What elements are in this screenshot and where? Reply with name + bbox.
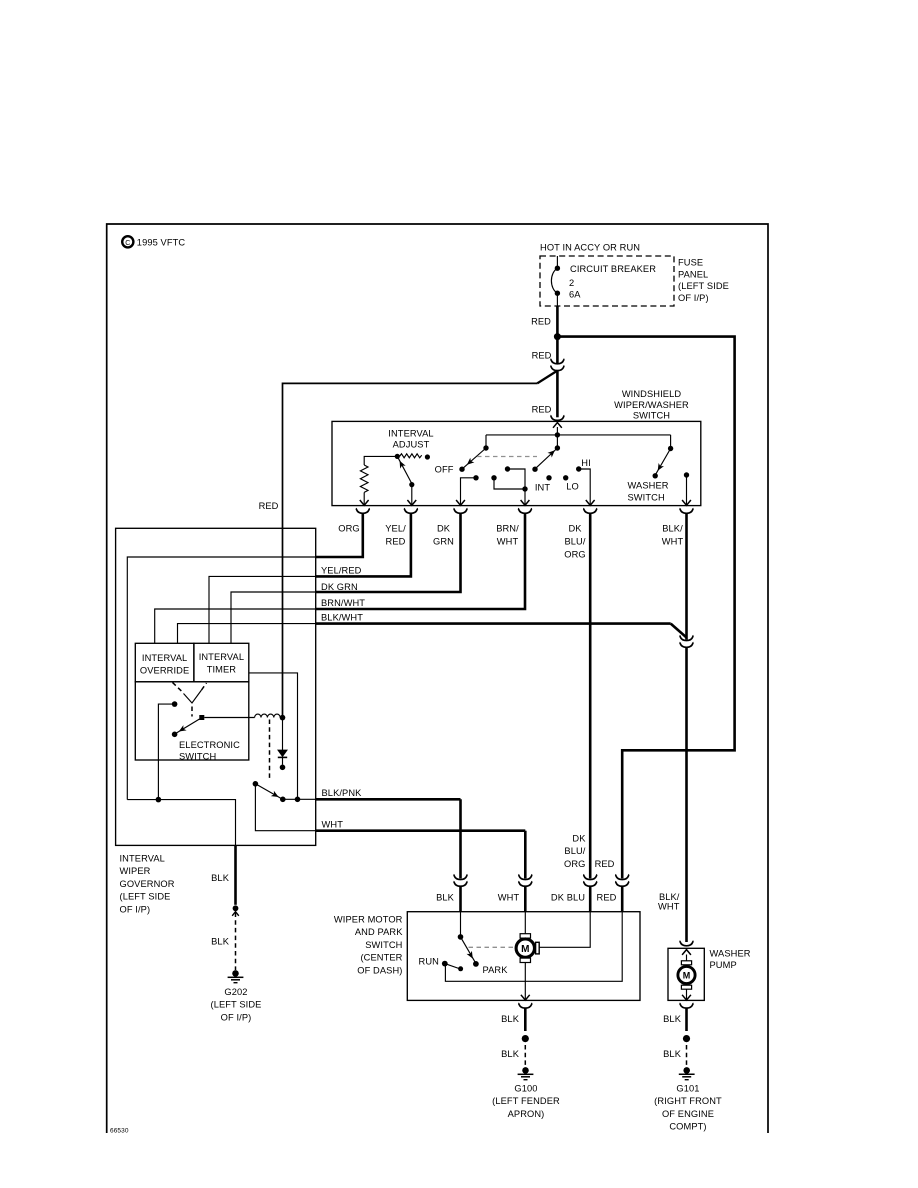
svg-text:BLK/: BLK/ — [659, 892, 680, 902]
svg-text:FUSE: FUSE — [678, 258, 703, 268]
svg-text:6A: 6A — [569, 290, 581, 300]
page border frame — [107, 224, 768, 1133]
svg-text:COMPT): COMPT) — [669, 1122, 706, 1132]
svg-text:ORG: ORG — [564, 549, 585, 559]
labels below motor connectors — [436, 893, 617, 903]
relay switch lower — [253, 781, 316, 802]
connector under motor box — [518, 1003, 532, 1008]
washer pump connector at box — [680, 941, 694, 946]
label WINDSHIELD WIPER/WASHER SWITCH — [614, 389, 689, 421]
svg-text:ADJUST: ADJUST — [393, 440, 430, 450]
wire branch diagonal to left RED run — [537, 371, 557, 383]
svg-text:WASHER: WASHER — [710, 949, 751, 959]
timer control dashed V — [173, 683, 207, 717]
wire BLK to G101 — [663, 1008, 690, 1066]
contact LO — [563, 475, 568, 480]
wire BLK/WHT from switch down — [685, 513, 688, 639]
wire RED down from junction — [556, 337, 559, 364]
svg-text:(LEFT SIDE: (LEFT SIDE — [678, 281, 729, 291]
potentiometer interval adjust — [395, 454, 430, 460]
contact washer / BLK/WHT column — [682, 472, 691, 505]
svg-text:SWITCH: SWITCH — [179, 752, 216, 762]
svg-text:(RIGHT FRONT: (RIGHT FRONT — [654, 1096, 722, 1106]
connector under washer pump — [680, 1003, 694, 1008]
svg-text:INTERVAL: INTERVAL — [142, 653, 187, 663]
svg-text:OF ENGINE: OF ENGINE — [662, 1109, 714, 1119]
switch arm washer — [653, 449, 671, 479]
svg-text:RED: RED — [597, 893, 617, 903]
svg-text:RUN: RUN — [419, 957, 439, 967]
wire motor to ground exit — [521, 963, 530, 1001]
pot wiper arm — [397, 458, 416, 505]
svg-text:WHT: WHT — [662, 536, 684, 546]
svg-text:AND PARK: AND PARK — [355, 927, 403, 937]
svg-text:HI: HI — [581, 458, 591, 468]
interval override box — [135, 643, 194, 682]
svg-text:CIRCUIT BREAKER: CIRCUIT BREAKER — [570, 264, 656, 274]
svg-text:BLK: BLK — [663, 1014, 682, 1024]
svg-text:RED: RED — [259, 501, 279, 511]
svg-text:WIPER MOTOR: WIPER MOTOR — [334, 915, 403, 925]
mechanical link dashed OFF-LO — [477, 456, 537, 458]
svg-text:OVERRIDE: OVERRIDE — [140, 666, 189, 676]
svg-text:(LEFT SIDE: (LEFT SIDE — [211, 1000, 262, 1010]
svg-text:HOT IN ACCY OR RUN: HOT IN ACCY OR RUN — [540, 243, 640, 253]
svg-text:GRN: GRN — [433, 536, 454, 546]
svg-text:BLK: BLK — [501, 1049, 520, 1059]
svg-text:BLK: BLK — [436, 893, 455, 903]
wiper switch arm pivot — [556, 435, 558, 448]
diode — [278, 718, 287, 771]
svg-text:1995 VFTC: 1995 VFTC — [137, 238, 186, 248]
contact INT — [546, 475, 551, 480]
contact OFF lower / DK GRN column — [456, 475, 479, 505]
svg-text:BLK: BLK — [211, 873, 230, 883]
washer pump box — [668, 948, 704, 1000]
wire pot to resistor top — [364, 456, 397, 465]
wire RED from breaker to junction — [556, 306, 559, 337]
interval wiper governor box — [116, 528, 316, 845]
washer pump motor M — [678, 955, 695, 1001]
connector at switch box edge — [550, 416, 564, 421]
wire DK BLU inside box to motor — [539, 912, 590, 948]
svg-text:GOVERNOR: GOVERNOR — [120, 879, 175, 889]
contacts BRN/WHT network — [491, 466, 529, 505]
wiper motor M — [516, 912, 539, 963]
park switch pivot — [458, 912, 464, 940]
svg-text:ORG: ORG — [564, 859, 585, 869]
connector in-line on RED — [550, 359, 564, 371]
washer switch pivot — [668, 435, 673, 451]
wire DK BLU/ORG to motor — [589, 513, 592, 878]
wire DK GRN — [316, 513, 461, 592]
wire RED to motor connector — [615, 875, 629, 887]
wire RED to right side — [557, 337, 734, 879]
wire WHT from pivot — [255, 784, 315, 831]
svg-text:INTERVAL: INTERVAL — [388, 429, 433, 439]
wire internal bus — [486, 434, 671, 436]
svg-text:OFF: OFF — [435, 465, 454, 475]
wire BLK to G100 — [501, 1008, 529, 1066]
circuit breaker 2 6A — [551, 256, 656, 306]
svg-text:BLK/WHT: BLK/WHT — [321, 613, 363, 623]
svg-text:DK GRN: DK GRN — [321, 582, 358, 592]
electronic switch pivot — [199, 715, 204, 720]
svg-text:BRN/: BRN/ — [496, 524, 519, 534]
svg-text:SWITCH: SWITCH — [633, 411, 670, 421]
wire BLK to motor — [459, 799, 462, 878]
svg-text:G100: G100 — [514, 1084, 537, 1094]
svg-text:WIPER/WASHER: WIPER/WASHER — [614, 400, 689, 410]
svg-text:TIMER: TIMER — [207, 665, 237, 675]
svg-text:YEL/: YEL/ — [385, 524, 406, 534]
svg-text:RED: RED — [532, 405, 552, 415]
switch arm park — [461, 937, 479, 967]
wire BLK/WHT to washer pump — [685, 647, 688, 943]
svg-text:SWITCH: SWITCH — [365, 940, 402, 950]
svg-text:ELECTRONIC: ELECTRONIC — [179, 740, 240, 750]
svg-text:WHT: WHT — [497, 536, 519, 546]
connector in-line BLK/WHT — [680, 636, 694, 648]
svg-text:PANEL: PANEL — [678, 269, 708, 279]
svg-text:(CENTER: (CENTER — [360, 953, 402, 963]
label WIPER MOTOR AND PARK SWITCH — [334, 915, 403, 976]
wire from timer box to relay contact — [249, 673, 298, 799]
svg-text:G202: G202 — [224, 987, 247, 997]
contact HI / DK BLU/ORG column — [576, 466, 595, 505]
svg-text:RED: RED — [386, 536, 406, 546]
svg-text:BRN/WHT: BRN/WHT — [321, 598, 365, 608]
wire bus stub to OFF pivot — [485, 435, 487, 448]
contact RUN — [419, 957, 464, 972]
wire ORG — [316, 513, 363, 557]
copyright mark 1995 VFTC — [122, 236, 185, 247]
svg-text:DK: DK — [437, 524, 451, 534]
node bus junction — [555, 432, 560, 437]
wire YEL/RED — [316, 513, 411, 576]
label INTERVAL WIPER GOVERNOR — [120, 854, 175, 915]
ground G101 — [679, 1067, 695, 1080]
svg-text:PUMP: PUMP — [710, 960, 737, 970]
svg-text:INT: INT — [535, 483, 550, 493]
svg-text:OF DASH): OF DASH) — [357, 965, 402, 975]
labels above motor connectors — [564, 834, 615, 869]
relay mechanical dashed link — [269, 720, 271, 781]
svg-text:WIPER: WIPER — [120, 866, 151, 876]
interval timer box — [194, 643, 249, 682]
ground G202 — [228, 970, 244, 983]
node junction RED feed — [554, 333, 561, 340]
switch arm electronic — [172, 719, 200, 737]
wire BLK/WHT horizontal — [316, 622, 671, 625]
svg-text:OF I/P): OF I/P) — [678, 293, 709, 303]
electronic switch box — [135, 682, 249, 760]
svg-text:BLK: BLK — [501, 1014, 520, 1024]
label FUSE PANEL (LEFT SIDE OF I/P) — [678, 258, 729, 303]
svg-text:INTERVAL: INTERVAL — [120, 854, 165, 864]
wire RED below connector — [556, 370, 559, 417]
svg-text:WHT: WHT — [498, 893, 520, 903]
svg-text:RED: RED — [532, 351, 552, 361]
svg-text:INTERVAL: INTERVAL — [199, 652, 244, 662]
contact electronic switch upper — [158, 701, 177, 799]
svg-text:66530: 66530 — [110, 1128, 129, 1135]
svg-text:WASHER: WASHER — [628, 481, 669, 491]
svg-text:G101: G101 — [676, 1084, 699, 1094]
fuse panel dashed box — [540, 256, 674, 306]
svg-text:OF I/P): OF I/P) — [120, 904, 151, 914]
svg-text:2: 2 — [569, 278, 574, 288]
switch arm wiper INT/LO/HI — [532, 448, 557, 472]
switch arm OFF — [459, 448, 486, 472]
svg-text:WHT: WHT — [322, 820, 344, 830]
svg-text:BLK/PNK: BLK/PNK — [322, 788, 363, 798]
svg-text:DK: DK — [572, 834, 586, 844]
svg-text:OF I/P): OF I/P) — [221, 1012, 252, 1022]
svg-text:BLK: BLK — [211, 937, 230, 947]
svg-text:M: M — [683, 971, 691, 981]
wire BLK to G202 — [211, 845, 239, 970]
svg-text:RED: RED — [531, 317, 551, 327]
svg-text:LO: LO — [566, 482, 579, 492]
relay coil — [204, 714, 285, 720]
svg-text:(LEFT SIDE: (LEFT SIDE — [120, 892, 171, 902]
mechanical dashed link park-motor — [469, 946, 514, 948]
svg-text:BLK: BLK — [663, 1049, 682, 1059]
wiper motor and park switch box — [407, 912, 640, 1001]
wire resistor to box edge with arrow — [363, 492, 365, 504]
svg-text:YEL/RED: YEL/RED — [321, 565, 362, 575]
svg-text:WHT: WHT — [658, 902, 680, 912]
connector cups under switch box — [356, 509, 370, 514]
svg-text:C: C — [125, 240, 130, 247]
svg-text:PARK: PARK — [483, 965, 509, 975]
svg-text:BLK/: BLK/ — [662, 524, 683, 534]
svg-text:APRON): APRON) — [508, 1109, 545, 1119]
svg-text:WINDSHIELD: WINDSHIELD — [622, 389, 682, 399]
svg-text:(LEFT FENDER: (LEFT FENDER — [492, 1096, 560, 1106]
windshield wiper/washer switch box — [332, 421, 701, 505]
ground G100 — [518, 1067, 534, 1080]
wire BLK/PNK — [316, 798, 461, 801]
svg-text:M: M — [521, 944, 529, 955]
svg-text:RED: RED — [595, 859, 615, 869]
svg-text:DK BLU: DK BLU — [551, 893, 585, 903]
wire WHT to motor — [524, 831, 527, 879]
wire RED inside motor box — [445, 912, 622, 982]
svg-text:BLU/: BLU/ — [564, 846, 585, 856]
resistor in switch — [360, 465, 368, 492]
svg-text:SWITCH: SWITCH — [628, 492, 665, 502]
svg-text:DK: DK — [568, 524, 582, 534]
svg-text:BLU/: BLU/ — [564, 536, 585, 546]
svg-text:ORG: ORG — [338, 524, 359, 534]
wire BRN/WHT — [316, 513, 525, 609]
wire labels under switch — [338, 524, 683, 560]
wire BLK ground run inside governor — [127, 797, 235, 846]
